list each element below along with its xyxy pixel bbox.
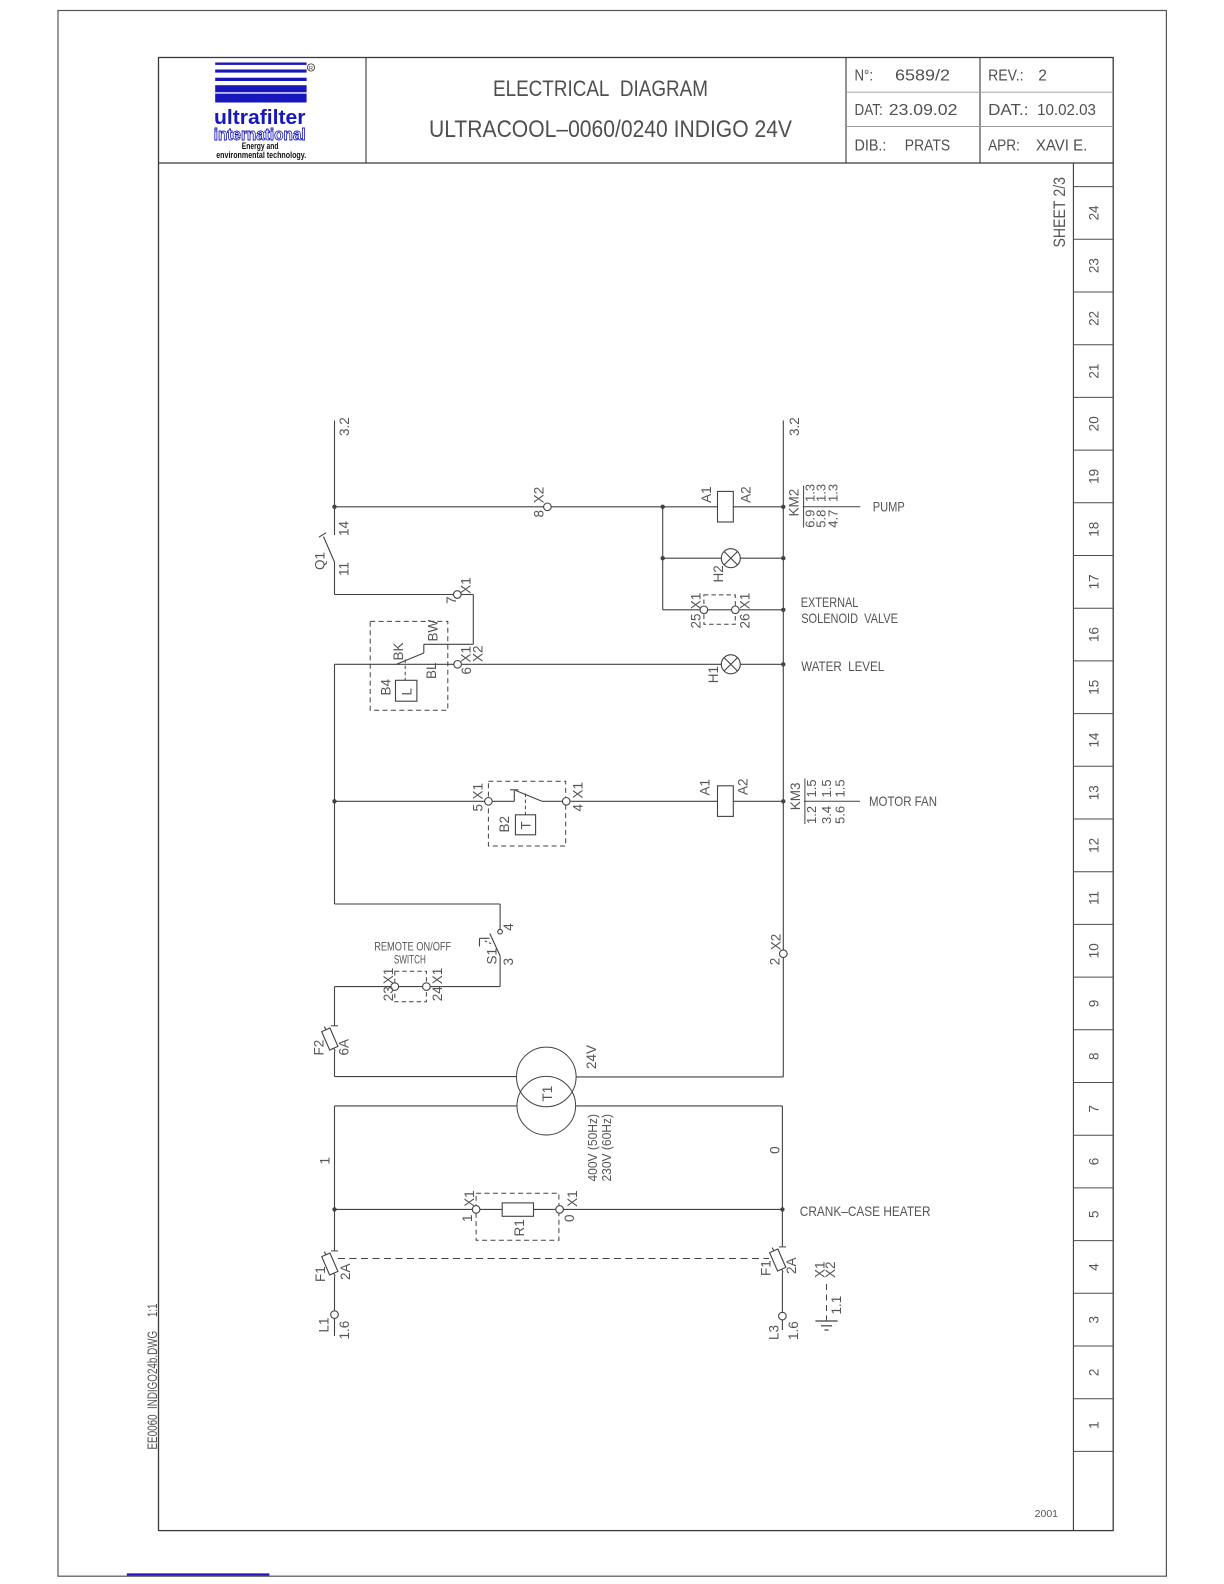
wire 23 left (335, 986, 392, 988)
svg-text:REV.:: REV.: (988, 68, 1024, 85)
svg-text:25: 25 (688, 613, 703, 628)
svg-text:5: 5 (1086, 1210, 1101, 1218)
svg-text:18: 18 (1086, 522, 1101, 537)
svg-text:3: 3 (1086, 1316, 1101, 1324)
svg-text:10: 10 (1086, 943, 1101, 958)
wire F1 to L1 (334, 1277, 336, 1311)
fuse coupling link (dashed) (338, 1258, 769, 1260)
svg-text:8: 8 (531, 510, 546, 518)
svg-text:17: 17 (1086, 574, 1101, 589)
wire F2 to 24V line (334, 1052, 336, 1077)
junction pump line/right rail (781, 505, 785, 509)
wire from X1:7 (461, 594, 473, 596)
junction primary left/heater (332, 1207, 336, 1211)
T1 secondary winding (517, 1047, 577, 1107)
svg-text:1.1: 1.1 (829, 1296, 844, 1315)
svg-text:3: 3 (501, 958, 516, 966)
wire H2 to rail (740, 557, 783, 559)
logo registered trademark symbol (307, 64, 314, 71)
B2 sensor box T (515, 815, 535, 835)
svg-text:X2: X2 (769, 934, 784, 951)
thermostat B2 (dashed enclosure) (488, 781, 565, 846)
wire solenoid left (663, 609, 700, 611)
terminal X1:26 (732, 606, 740, 614)
svg-text:2001: 2001 (1035, 1508, 1059, 1520)
wire primary right rail (781, 1106, 783, 1210)
junction branch H2 (661, 505, 665, 509)
S1 manual actuator (480, 937, 490, 939)
svg-text:H1: H1 (706, 666, 721, 683)
svg-text:T1: T1 (540, 1086, 555, 1102)
wire to KM3 (570, 800, 718, 802)
svg-text:A1: A1 (698, 779, 713, 796)
KM3 contact cross-ref line (804, 800, 860, 802)
svg-text:X2: X2 (531, 487, 546, 504)
svg-text:23.09.02: 23.09.02 (889, 102, 958, 119)
svg-text:23: 23 (381, 986, 396, 1001)
svg-text:14: 14 (337, 520, 352, 536)
lamp H2 (721, 549, 740, 568)
svg-text:24: 24 (1086, 205, 1101, 221)
svg-text:19: 19 (1086, 469, 1101, 484)
svg-text:2A: 2A (784, 1257, 799, 1274)
svg-text:16: 16 (1086, 627, 1101, 642)
svg-text:L: L (400, 688, 415, 696)
wire F1 to L3 (781, 1273, 783, 1313)
KM2 cross-ref table edge (803, 486, 805, 528)
title block divider logo/title (365, 58, 367, 164)
B4 contact blade (397, 653, 424, 664)
svg-text:24: 24 (430, 986, 445, 1002)
svg-text:2: 2 (1086, 1369, 1101, 1377)
svg-text:13: 13 (1086, 785, 1101, 800)
svg-text:400V (50Hz): 400V (50Hz) (586, 1114, 600, 1182)
svg-text:7: 7 (1086, 1105, 1101, 1113)
F1 right terminal tick (779, 1246, 786, 1248)
svg-text:7: 7 (444, 596, 459, 604)
svg-text:2A: 2A (338, 1263, 353, 1280)
ground link (dashed) (826, 1284, 828, 1321)
svg-text:APR:: APR: (988, 138, 1020, 155)
svg-text:0: 0 (768, 1146, 783, 1154)
svg-text:3.2: 3.2 (787, 417, 802, 436)
terminal X1:5 (485, 798, 493, 806)
svg-text:EXTERNAL: EXTERNAL (801, 594, 859, 610)
wire primary top left (335, 1105, 518, 1107)
T1 primary winding (517, 1076, 576, 1135)
svg-text:1.5: 1.5 (804, 779, 819, 797)
lamp H1 (721, 655, 740, 674)
terminal X1:7 (454, 591, 462, 599)
svg-text:15: 15 (1086, 680, 1101, 695)
svg-text:11: 11 (1086, 891, 1101, 905)
svg-text:14: 14 (1086, 732, 1101, 748)
svg-text:KM2: KM2 (787, 489, 802, 517)
wire to F1 right (781, 1209, 783, 1247)
B2 thermostat contact (513, 791, 515, 802)
wire X1:1 to R1 (480, 1208, 502, 1210)
title block bottom line (159, 162, 1114, 164)
svg-text:1: 1 (460, 1214, 475, 1222)
terminal X2:8 (544, 503, 552, 511)
wire right rail upper (3.2) (782, 421, 784, 950)
wire water level right (740, 663, 783, 665)
svg-text:PUMP: PUMP (873, 499, 905, 515)
svg-text:SOLENOID VALVE: SOLENOID VALVE (801, 610, 898, 626)
switch Q1 (319, 533, 326, 538)
wire KM3 to rail (733, 800, 783, 802)
wire motor fan left (335, 800, 485, 802)
wire 24V left (335, 1076, 517, 1078)
svg-text:CRANK–CASE HEATER: CRANK–CASE HEATER (800, 1203, 931, 1219)
KM2 contact cross-ref line (803, 506, 861, 508)
svg-text:24V: 24V (584, 1045, 599, 1069)
fuse F1 right (768, 1246, 787, 1274)
terminal X1:23 (391, 983, 399, 991)
wire right rail lower (782, 958, 784, 1077)
svg-text:X1: X1 (565, 1190, 580, 1207)
svg-text:WATER LEVEL: WATER LEVEL (801, 658, 884, 674)
wire water level left (335, 663, 454, 665)
wire S1 bottom (499, 957, 501, 987)
wire to terminal X1:7 (335, 594, 454, 596)
svg-text:L1: L1 (317, 1317, 332, 1332)
wire Q1 to corner (334, 561, 336, 594)
svg-text:1: 1 (1086, 1421, 1101, 1429)
svg-text:A2: A2 (738, 486, 753, 503)
wire 24V right (576, 1076, 783, 1078)
svg-text:S1: S1 (484, 948, 499, 965)
contactor coil KM2 (718, 491, 734, 522)
svg-text:XAVI E.: XAVI E. (1036, 138, 1087, 155)
wire S1 top (499, 904, 501, 929)
terminal pair X1:25/26 dashed box (704, 595, 735, 624)
svg-text:X1: X1 (381, 968, 396, 985)
title block divider title/data (845, 58, 847, 164)
terminal X1:1 (472, 1206, 480, 1214)
terminal X1:24 (423, 983, 431, 991)
svg-text:environmental technology.: environmental technology. (216, 150, 306, 161)
wire heater right (563, 1208, 782, 1210)
svg-text:12: 12 (1086, 838, 1101, 853)
wire left rail to F2 (334, 987, 336, 1026)
wire pump line mid (551, 506, 717, 508)
wire pump line left (335, 506, 544, 508)
svg-text:F2: F2 (311, 1040, 326, 1056)
terminal pair X1:23/24 dashed box (395, 971, 427, 1002)
inner drawing frame (159, 58, 1114, 1531)
wire heater left (335, 1208, 473, 1210)
terminal L1 (331, 1311, 339, 1319)
junction water level/right rail (781, 662, 785, 666)
svg-text:1: 1 (318, 1157, 333, 1165)
svg-text:1.3: 1.3 (825, 484, 840, 502)
B4 sensor box (396, 680, 417, 701)
svg-text:N°:: N°: (855, 68, 874, 85)
B2 actuator link (dashed) (524, 794, 526, 815)
svg-text:3.2: 3.2 (337, 417, 352, 436)
wire L3 stub (781, 1320, 783, 1330)
KM3 cross-ref table edge (804, 779, 806, 825)
svg-text:R: R (309, 66, 313, 72)
svg-text:X1: X1 (688, 593, 703, 610)
blue underline mark bottom-left (127, 1573, 270, 1575)
wire BW stub (423, 644, 425, 653)
wire branch down from pump line (662, 507, 664, 610)
junction H2 tee (661, 556, 665, 560)
svg-text:X2: X2 (471, 645, 486, 662)
svg-text:SWITCH: SWITCH (394, 953, 426, 967)
svg-text:X1: X1 (459, 577, 474, 594)
wire left rail top (3.2) (334, 421, 336, 536)
wire jog to S1 (335, 903, 501, 905)
svg-text:10.02.03: 10.02.03 (1037, 102, 1096, 119)
svg-text:R1: R1 (512, 1219, 527, 1236)
ultrafilter logo bars (215, 63, 306, 65)
svg-text:DAT.:: DAT.: (988, 102, 1028, 119)
svg-text:1.5: 1.5 (833, 779, 848, 797)
svg-text:A2: A2 (736, 778, 751, 795)
svg-text:EE0060 INDIGO24b.DWG 1:1: EE0060 INDIGO24b.DWG 1:1 (144, 1303, 160, 1449)
svg-text:4: 4 (501, 923, 516, 931)
svg-text:Q1: Q1 (312, 552, 327, 570)
svg-text:X1: X1 (737, 593, 752, 610)
svg-text:1.5: 1.5 (819, 779, 834, 797)
svg-text:ULTRACOOL–0060/0240 INDIGO 24V: ULTRACOOL–0060/0240 INDIGO 24V (429, 116, 792, 143)
svg-text:5: 5 (471, 804, 486, 812)
heater R1 (dashed enclosure) (476, 1193, 559, 1240)
number column left edge (1072, 163, 1074, 1531)
terminal X1:0 (556, 1206, 564, 1214)
terminal L3 (779, 1312, 787, 1320)
terminal X1:4 (562, 798, 570, 806)
junction H2/right rail (781, 556, 785, 560)
wire water level mid (461, 663, 721, 665)
svg-text:X2: X2 (823, 1261, 838, 1278)
svg-text:2: 2 (1038, 68, 1047, 85)
junction solenoid/right rail (781, 608, 785, 612)
svg-text:6: 6 (1086, 1158, 1101, 1166)
svg-text:4.7: 4.7 (825, 510, 840, 528)
svg-text:H2: H2 (711, 565, 726, 582)
level switch B4 (dashed enclosure) (370, 621, 448, 710)
title block row separator 2 (846, 126, 1113, 128)
wire to H2 (663, 557, 722, 559)
svg-text:X1: X1 (571, 782, 586, 799)
svg-text:MOTOR FAN: MOTOR FAN (869, 793, 937, 809)
wire primary top right (576, 1105, 783, 1107)
svg-text:8: 8 (1086, 1052, 1101, 1060)
svg-text:6: 6 (459, 667, 474, 675)
svg-text:3.4: 3.4 (819, 806, 834, 824)
terminal X2:2 (780, 950, 788, 958)
junction primary right/heater (780, 1207, 784, 1211)
wire drop to B4 (472, 595, 474, 645)
terminal X1:25 (700, 606, 708, 614)
wire R1 to X1:0 (534, 1208, 556, 1210)
svg-text:L3: L3 (767, 1325, 782, 1340)
number column cell separators (1073, 186, 1113, 188)
svg-text:REMOTE ON/OFF: REMOTE ON/OFF (374, 939, 451, 953)
svg-text:F1: F1 (313, 1266, 328, 1282)
wire between 25 26 (708, 609, 732, 611)
svg-text:22: 22 (1086, 311, 1101, 326)
svg-text:6A: 6A (337, 1039, 352, 1056)
svg-text:26: 26 (737, 613, 752, 628)
svg-text:X1: X1 (471, 783, 486, 800)
junction left rail/pump line (332, 505, 336, 509)
svg-text:T: T (519, 821, 534, 829)
F1 left terminal tick (331, 1250, 338, 1252)
svg-text:230V (60Hz): 230V (60Hz) (600, 1114, 614, 1182)
svg-text:9: 9 (1086, 1000, 1101, 1008)
svg-text:B2: B2 (497, 816, 512, 833)
svg-text:A1: A1 (699, 486, 714, 503)
wire 24 to S1 (430, 986, 500, 988)
wire L1 stub (334, 1318, 336, 1336)
wire to F1 left (334, 1209, 336, 1251)
svg-text:21: 21 (1086, 364, 1101, 379)
svg-text:0: 0 (562, 1214, 577, 1222)
svg-text:11: 11 (337, 562, 352, 576)
switch S1 (490, 934, 501, 957)
svg-text:4: 4 (1086, 1263, 1101, 1271)
wire KM2 to rail (733, 506, 783, 508)
wire left rail mid (334, 664, 336, 904)
svg-text:23: 23 (1086, 258, 1101, 273)
fuse F1 left (320, 1250, 339, 1278)
svg-text:PRATS: PRATS (905, 138, 950, 155)
resistor R1 (502, 1203, 533, 1216)
svg-text:4: 4 (570, 804, 585, 812)
contactor coil KM3 (718, 786, 734, 817)
svg-text:KM3: KM3 (788, 782, 803, 810)
svg-text:1.2: 1.2 (804, 806, 819, 824)
wire between 23 24 (399, 986, 423, 988)
terminal S1:4 (498, 929, 503, 934)
svg-text:BW: BW (426, 619, 441, 641)
terminal X1/X2:6 (454, 661, 462, 669)
ground (815, 1320, 837, 1322)
title block divider data columns (979, 58, 981, 164)
svg-text:6589/2: 6589/2 (895, 68, 950, 85)
junction motor fan/right rail (781, 799, 785, 803)
fuse F2 (320, 1025, 339, 1053)
junction left rail/motor fan (332, 799, 336, 803)
svg-text:20: 20 (1086, 416, 1101, 431)
svg-text:BK: BK (391, 642, 406, 660)
wire X1:5 to contact (492, 800, 514, 802)
svg-text:DAT:: DAT: (855, 102, 883, 119)
wire solenoid to rail (739, 609, 783, 611)
svg-text:SHEET 2/3: SHEET 2/3 (1051, 177, 1069, 248)
wire to B4 BW (424, 643, 474, 645)
wire primary left rail (334, 1106, 336, 1210)
svg-text:1.6: 1.6 (786, 1321, 801, 1340)
svg-text:ELECTRICAL DIAGRAM: ELECTRICAL DIAGRAM (493, 76, 708, 101)
B4 sensor link (dashed) (404, 660, 406, 681)
svg-text:X1: X1 (462, 1190, 477, 1207)
svg-text:5.6: 5.6 (833, 806, 848, 824)
svg-text:2: 2 (768, 958, 783, 966)
svg-text:DIB.:: DIB.: (855, 138, 887, 155)
svg-text:F1: F1 (758, 1260, 773, 1276)
F2 terminal tick (331, 1025, 338, 1027)
svg-text:B4: B4 (378, 678, 393, 695)
svg-text:1.6: 1.6 (337, 1321, 352, 1340)
svg-text:X1: X1 (430, 968, 445, 985)
title block row separator 1 (846, 91, 1113, 93)
wire contact to X1:4 (542, 800, 563, 802)
